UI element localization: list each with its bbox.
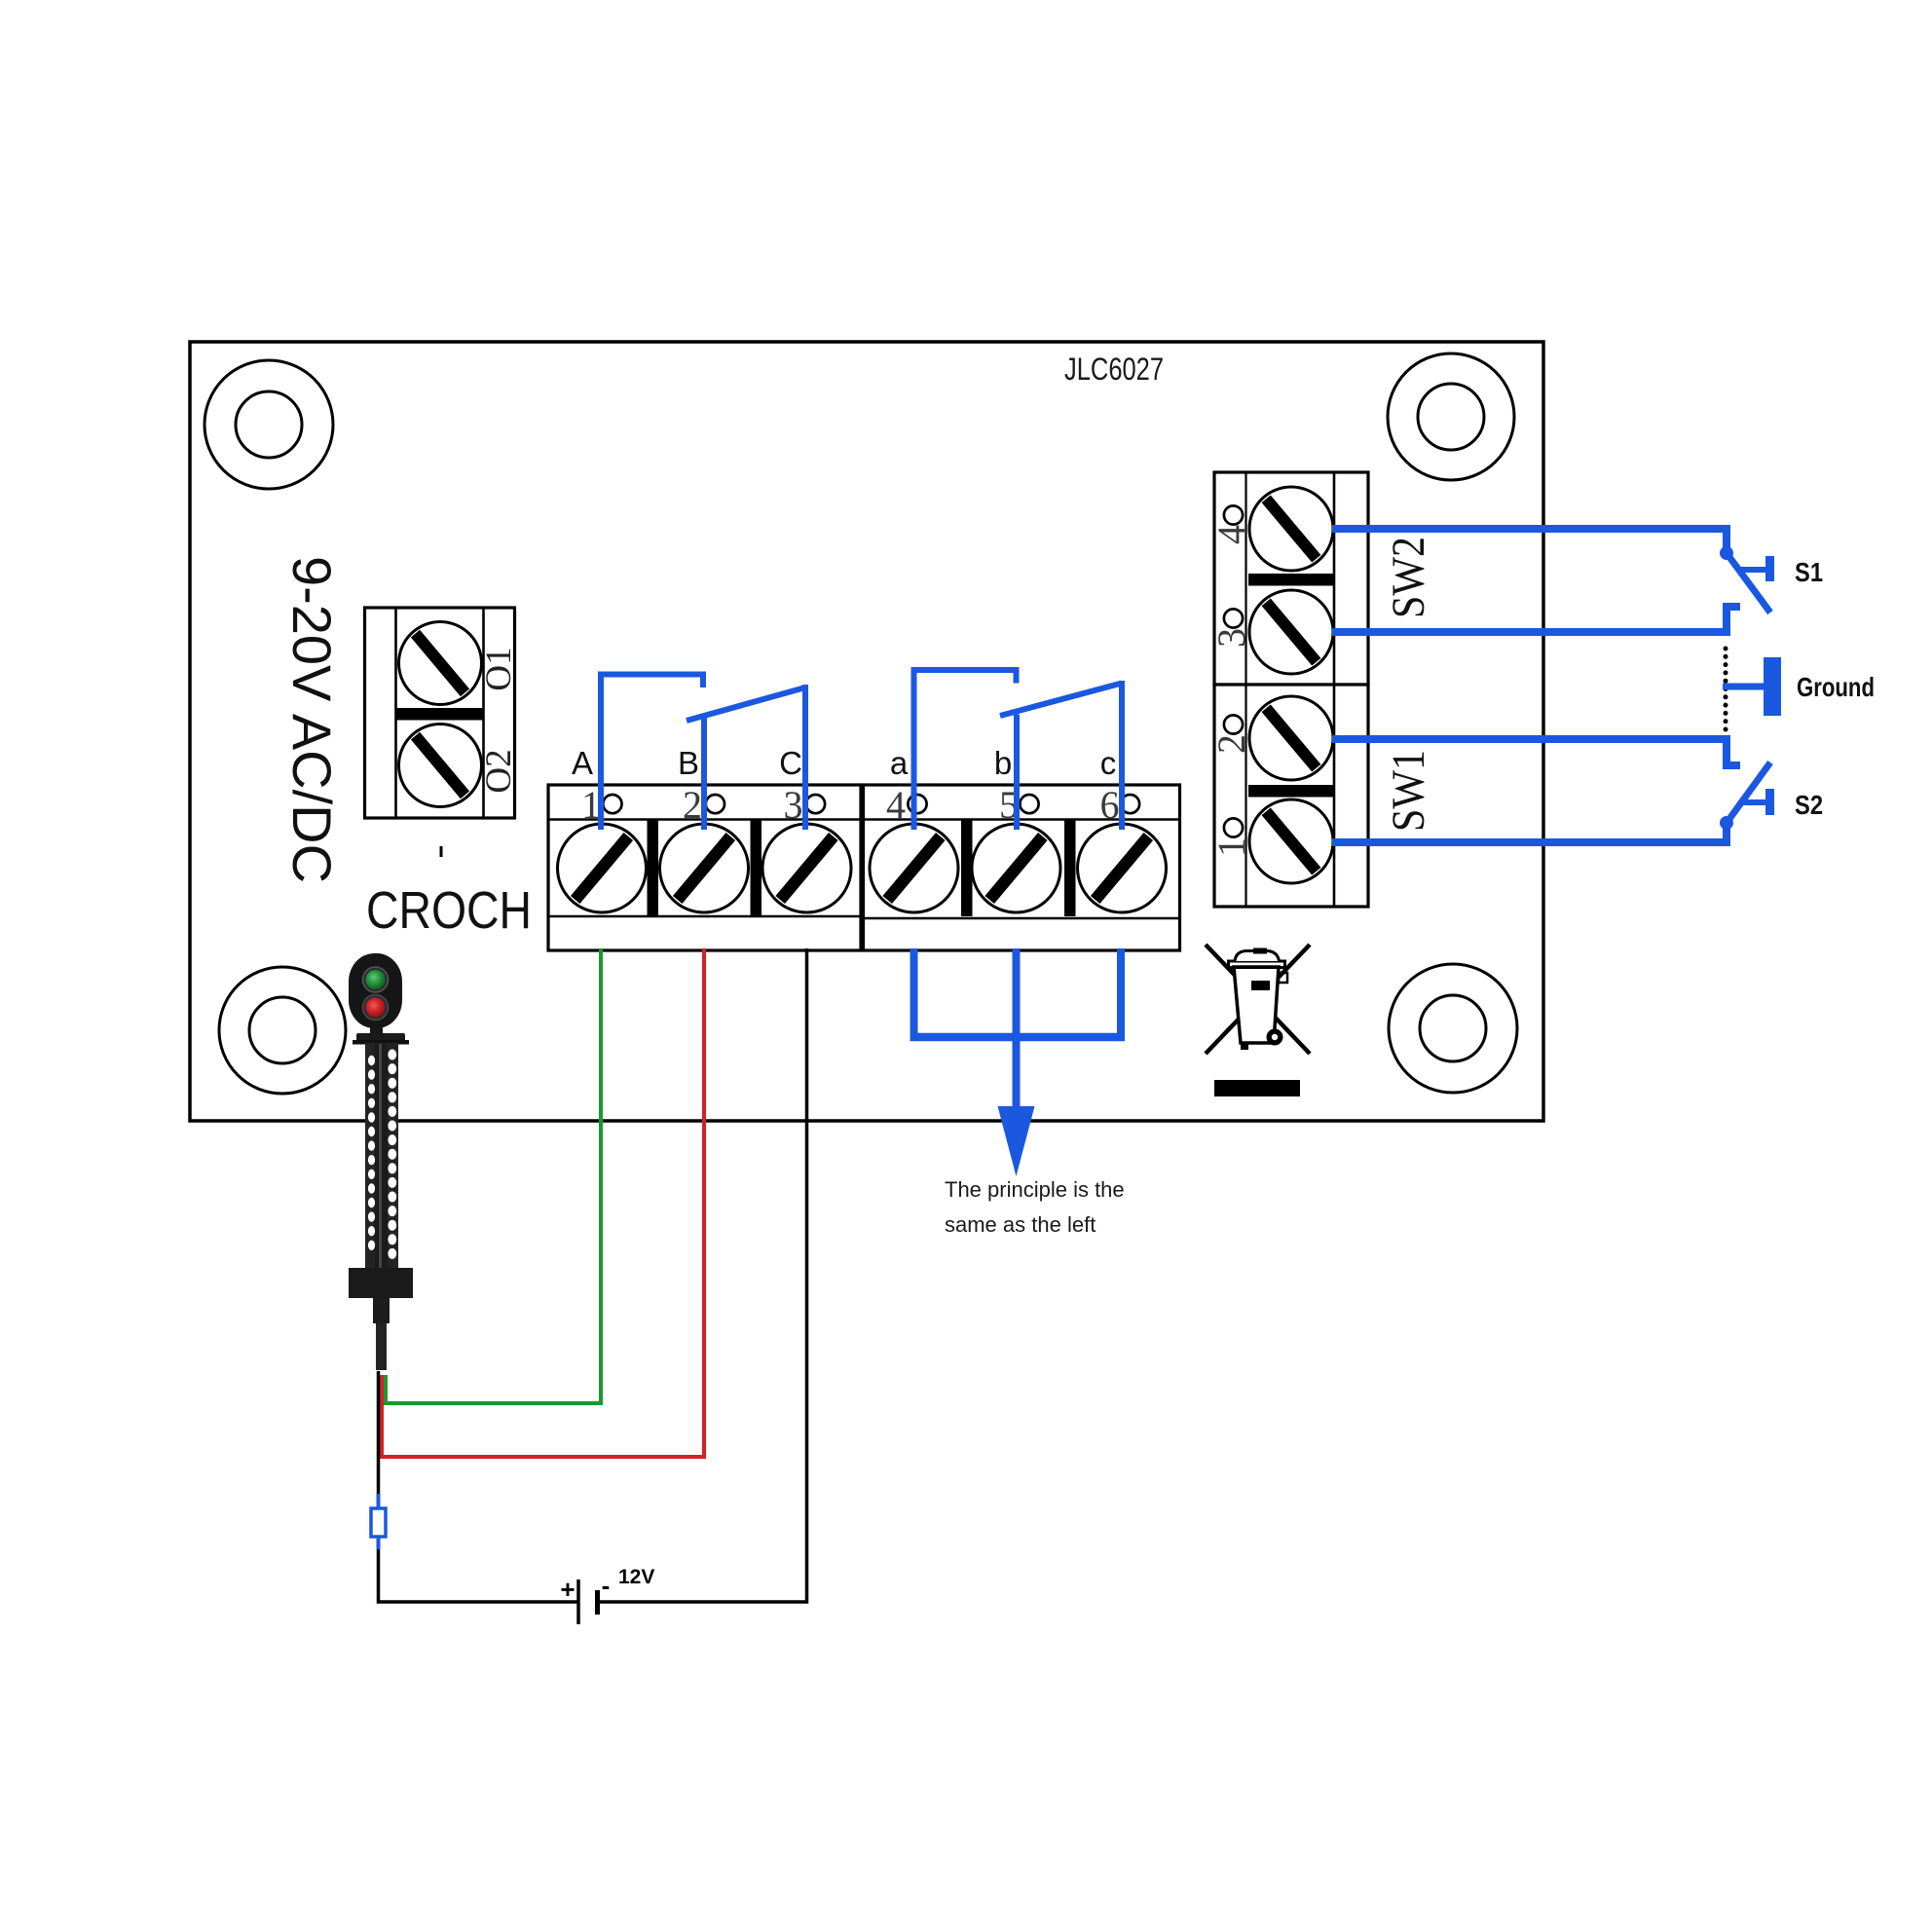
wire resistor to battery: [379, 1549, 579, 1602]
svg-text:C: C: [779, 745, 802, 781]
WEEE bin label: [1251, 981, 1270, 990]
svg-text:6: 6: [1100, 783, 1120, 827]
screw terminal 1: [558, 824, 647, 912]
screw terminal input 2: [399, 724, 482, 807]
screw terminal SW pin 1: [1249, 799, 1333, 883]
svg-text:O2: O2: [479, 749, 519, 793]
wire battery to terminal 3: [598, 948, 807, 1602]
terminal separator bar 3: [961, 820, 973, 916]
svg-text:a: a: [890, 745, 909, 781]
mounting hole top-left: [204, 360, 333, 489]
pin number 3: [784, 783, 826, 827]
terminal separator bar 4: [1064, 820, 1076, 916]
svg-text:S1: S1: [1795, 557, 1823, 587]
svg-text:The principle is the: The principle is the: [945, 1177, 1125, 1202]
WEEE icon cross line 1: [1206, 945, 1310, 1054]
svg-text:2: 2: [1209, 734, 1253, 754]
svg-text:4: 4: [886, 783, 906, 827]
polarity tick mark: [440, 846, 443, 857]
switch S2 pivot: [1720, 816, 1733, 830]
relay blade b-c: [1000, 684, 1122, 717]
screw terminal SW pin 3: [1249, 590, 1333, 674]
wire c down: [1117, 948, 1125, 1041]
ground bar: [1764, 657, 1781, 716]
screw terminal 5: [972, 824, 1060, 912]
arrow head: [998, 1106, 1035, 1176]
battery BT1 12V: [578, 1579, 598, 1624]
WEEE bin foot: [1241, 1043, 1248, 1050]
output terminal block abc (4-6): [864, 785, 1180, 950]
svg-text:1: 1: [1209, 837, 1253, 857]
mounting hole bottom-left: [219, 967, 346, 1094]
signal platform: [353, 1033, 409, 1045]
pin number 4: [886, 783, 927, 827]
WEEE bin hinge: [1279, 973, 1287, 983]
switch S2 contact: [1739, 789, 1774, 815]
wire SW pin1 to S2: [1332, 825, 1727, 842]
signal stem: [373, 1298, 390, 1370]
screw terminal input 1: [399, 622, 482, 705]
SW pin number 1: [1209, 818, 1253, 857]
wire relay contact C: [802, 685, 808, 830]
svg-text:JLC6027: JLC6027: [1064, 352, 1164, 387]
screw terminal SW pin 4: [1249, 487, 1333, 571]
wire black signal to resistor: [377, 1371, 381, 1496]
signal green lens: [363, 967, 389, 992]
wire relay contact c: [1119, 681, 1125, 830]
wire SW pin3 upper contact: [1332, 607, 1740, 632]
input block separator bar: [396, 708, 483, 721]
output terminal block ABC (1-3): [548, 785, 861, 950]
pin number 1: [581, 783, 622, 827]
terminal separator bar 1: [648, 820, 659, 916]
svg-text:b: b: [994, 745, 1012, 781]
wire red signal to terminal 2: [382, 948, 704, 1457]
SW pin number 4: [1209, 505, 1253, 544]
WEEE bin wheel: [1267, 1029, 1283, 1046]
SW pin number 3: [1209, 609, 1253, 648]
svg-text:A: A: [572, 745, 593, 781]
wire green signal to terminal 1: [386, 948, 601, 1403]
pin number 5: [999, 783, 1039, 827]
switch terminal block SW2: [1214, 472, 1368, 685]
WEEE icon cross line 2: [1206, 945, 1310, 1054]
screw terminal 6: [1078, 824, 1167, 912]
svg-text:3: 3: [784, 783, 803, 827]
screw terminal 3: [762, 824, 851, 912]
wire SW pin2 lower contact: [1332, 739, 1740, 765]
PCB board outline: [190, 342, 1543, 1121]
input power terminal block J1: [365, 608, 515, 818]
screw terminal 4: [870, 824, 958, 912]
pin number 6: [1100, 783, 1140, 827]
mounting hole bottom-right: [1389, 964, 1517, 1093]
signal base plate: [349, 1268, 413, 1298]
signal mast: [365, 1043, 398, 1269]
svg-text:B: B: [678, 745, 699, 781]
signal red lens: [363, 995, 389, 1021]
dotted link line: [1724, 647, 1728, 732]
svg-text:O1: O1: [479, 647, 519, 690]
switch S1 blade: [1727, 553, 1770, 613]
WEEE bin body: [1234, 967, 1279, 1043]
WEEE solid bar: [1214, 1080, 1300, 1096]
svg-text:-: -: [602, 1571, 611, 1600]
SW1 separator bar: [1248, 785, 1333, 798]
wire join bar: [910, 1033, 1126, 1042]
svg-text:S2: S2: [1795, 790, 1823, 820]
screw terminal SW pin 2: [1249, 696, 1333, 780]
mounting hole top-right: [1388, 353, 1514, 480]
screw terminal 2: [660, 824, 749, 912]
svg-text:same as the left: same as the left: [945, 1212, 1096, 1237]
wire relay contact B common: [701, 717, 707, 830]
signal lamp head: [349, 953, 402, 1028]
signal ladder holes: [368, 1050, 396, 1259]
switch terminal block SW1: [1214, 685, 1368, 907]
switch S1 pivot: [1720, 546, 1733, 560]
signal neck: [370, 1027, 383, 1037]
wire SW pin4 to S1: [1332, 529, 1727, 551]
svg-text:4: 4: [1209, 525, 1253, 544]
svg-text:9-20V AC/DC: 9-20V AC/DC: [281, 556, 343, 883]
svg-text:c: c: [1100, 745, 1117, 781]
resistor R1: [371, 1494, 386, 1549]
pin number 2: [683, 783, 724, 827]
wire relay contact a fixed: [914, 670, 1017, 830]
svg-text:Ground: Ground: [1797, 672, 1875, 702]
wire relay contact A fixed: [601, 675, 703, 831]
SW pin number 2: [1209, 715, 1253, 754]
wire b down to arrow: [1013, 948, 1021, 1109]
SW2 separator bar: [1248, 574, 1333, 586]
ground tap wire: [1723, 684, 1765, 690]
switch S2 blade: [1727, 762, 1770, 823]
terminal separator bar 2: [751, 820, 762, 916]
svg-text:12V: 12V: [618, 1566, 654, 1588]
switch S1 contact: [1739, 556, 1774, 581]
svg-text:3: 3: [1209, 628, 1253, 648]
svg-text:2: 2: [683, 783, 702, 827]
svg-text:+: +: [560, 1575, 575, 1604]
svg-text:SW2: SW2: [1383, 537, 1434, 618]
wire relay contact b common: [1014, 715, 1020, 831]
relay blade B-C: [687, 687, 805, 721]
wire a down: [910, 948, 918, 1041]
svg-text:CROCH: CROCH: [366, 881, 532, 940]
svg-text:SW1: SW1: [1383, 750, 1434, 832]
WEEE bin lid: [1229, 948, 1285, 968]
